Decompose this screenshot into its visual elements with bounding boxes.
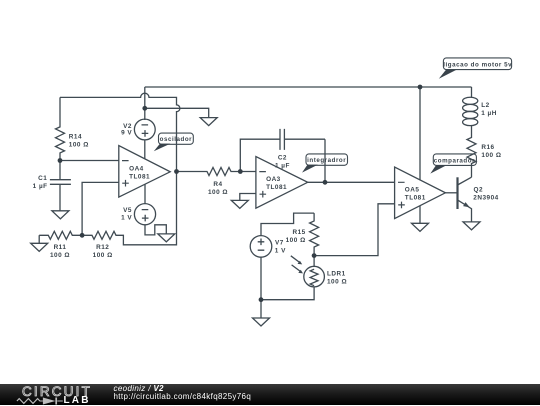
svg-text:R4: R4 [213,181,222,188]
svg-text:TL081: TL081 [405,194,426,201]
svg-text:1 V: 1 V [275,247,286,254]
svg-text:OA5: OA5 [405,187,420,194]
svg-text:100 Ω: 100 Ω [93,252,113,259]
svg-text:R16: R16 [481,144,494,151]
svg-text:V7: V7 [275,239,284,246]
svg-text:TL081: TL081 [266,184,287,191]
svg-text:L2: L2 [481,102,489,109]
svg-text:2N3904: 2N3904 [473,194,498,201]
svg-text:R15: R15 [292,229,305,236]
svg-text:LDR1: LDR1 [327,271,346,278]
svg-text:100 Ω: 100 Ω [208,189,228,196]
svg-text:100 Ω: 100 Ω [327,279,347,286]
svg-text:1 µH: 1 µH [481,110,497,117]
svg-text:OA4: OA4 [129,166,144,173]
svg-text:1 µF: 1 µF [33,183,48,190]
svg-text:100 Ω: 100 Ω [69,142,89,149]
svg-text:OA3: OA3 [266,176,281,183]
svg-text:9 V: 9 V [121,129,132,136]
svg-text:100 Ω: 100 Ω [50,252,70,259]
svg-text:comparador: comparador [434,158,475,165]
svg-text:1 µF: 1 µF [275,163,290,170]
svg-text:C1: C1 [38,175,47,182]
svg-text:100 Ω: 100 Ω [286,237,306,244]
svg-text:R11: R11 [54,244,67,251]
svg-text:C2: C2 [278,154,287,161]
svg-text:1 V: 1 V [121,214,132,221]
svg-text:R14: R14 [69,133,82,140]
svg-text:Q2: Q2 [474,186,484,193]
svg-text:oscilador: oscilador [160,136,193,143]
svg-text:R12: R12 [96,244,109,251]
svg-text:V5: V5 [123,207,132,214]
svg-text:integradror: integradror [307,157,346,164]
svg-text:ligacao do motor 5v: ligacao do motor 5v [443,62,512,69]
svg-text:TL081: TL081 [129,174,150,181]
svg-text:100 Ω: 100 Ω [481,152,501,159]
